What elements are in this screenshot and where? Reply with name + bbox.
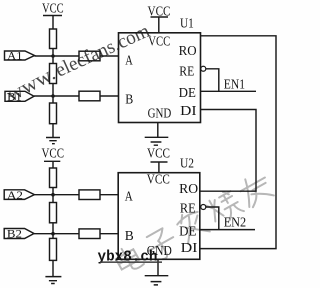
- pin RE bubble U1: [201, 66, 206, 71]
- ground (top-left chain): [46, 138, 60, 144]
- svg-text:RO: RO: [179, 43, 197, 58]
- resistor R3: [50, 103, 57, 124]
- wire R1 to R2: [52, 49, 54, 64]
- node B2 flag: [4, 227, 34, 241]
- wire B1 to resistor R8: [34, 95, 79, 97]
- power VCC (bottom-left chain): [42, 145, 65, 168]
- wire R4 to R5: [52, 188, 54, 203]
- resistor R1: [50, 29, 57, 49]
- svg-text:A2: A2: [7, 188, 23, 202]
- svg-text:EN1: EN1: [224, 77, 245, 92]
- wire R2 to R3: [52, 84, 54, 104]
- svg-text:RE: RE: [180, 201, 196, 216]
- resistor R4: [50, 168, 57, 188]
- ground (U1): [145, 123, 169, 146]
- wire B2 to resistor R10: [34, 233, 79, 235]
- svg-text:B1: B1: [7, 90, 21, 104]
- resistor R10: [79, 229, 100, 239]
- wire R7 to U1 pin A: [100, 55, 119, 57]
- node A2 junction: [51, 193, 55, 197]
- wire R10 to U2 pin B: [100, 233, 118, 235]
- resistor R6: [50, 238, 57, 260]
- power VCC (U1): [148, 3, 171, 32]
- wire R5 to R6: [52, 223, 54, 239]
- resistor R5: [50, 203, 57, 223]
- wire A2 to resistor R9: [34, 194, 79, 196]
- wire U2 DE net EN2: [200, 229, 255, 231]
- wire R8 to U1 pin B: [100, 95, 119, 97]
- resistor R7: [79, 51, 100, 61]
- IC U2 box: [118, 156, 200, 260]
- svg-text:A: A: [125, 188, 133, 203]
- ground (bottom-left chain): [45, 277, 61, 284]
- svg-text:U1: U1: [180, 16, 194, 31]
- wire U2 RE to EN2: [206, 207, 219, 230]
- watermark 电子发烧友 (drawn strokes): [113, 171, 275, 276]
- wire R6 to ground: [52, 260, 54, 276]
- svg-text:RO: RO: [179, 181, 198, 196]
- svg-text:DE: DE: [179, 223, 196, 238]
- svg-text:VCC: VCC: [148, 3, 171, 18]
- svg-text:VCC: VCC: [42, 145, 65, 160]
- resistor R8: [79, 91, 100, 101]
- wire U1 DE net EN1: [201, 90, 257, 92]
- wire R9 to U2 pin A: [100, 194, 118, 196]
- svg-text:RE: RE: [179, 63, 194, 78]
- wire R3 to ground: [52, 124, 54, 138]
- svg-text:A: A: [125, 52, 133, 67]
- watermark ybx8.ch: [98, 249, 163, 265]
- resistor R9: [79, 190, 100, 200]
- svg-text:EN2: EN2: [224, 215, 247, 230]
- node B1 junction: [51, 94, 55, 98]
- svg-text:DE: DE: [179, 85, 196, 100]
- node B2 junction: [51, 232, 55, 236]
- svg-text:B2: B2: [7, 227, 22, 241]
- wire U1 RO loop to U2 DI: [200, 36, 276, 249]
- IC U1 box: [119, 16, 201, 123]
- svg-text:VCC: VCC: [148, 33, 170, 48]
- svg-text:VCC: VCC: [147, 171, 170, 186]
- wire U1 DI loop to U2 RO: [200, 110, 256, 192]
- node A1 flag: [5, 48, 35, 62]
- svg-text:VCC: VCC: [42, 1, 64, 16]
- watermark www.elecfans.com: [3, 21, 153, 107]
- svg-text:B: B: [125, 92, 133, 107]
- wire A1 to resistor R7: [35, 55, 80, 57]
- svg-text:U2: U2: [180, 156, 194, 171]
- wire U1 RE to EN1: [206, 69, 219, 92]
- pin RE bubble U2: [201, 205, 206, 210]
- svg-text:GND: GND: [148, 105, 172, 120]
- node A2 flag: [4, 188, 34, 202]
- power VCC (U2): [147, 146, 170, 173]
- svg-text:VCC: VCC: [147, 146, 170, 161]
- svg-text:DI: DI: [180, 103, 197, 118]
- svg-text:DI: DI: [181, 240, 198, 255]
- svg-text:B: B: [125, 228, 134, 243]
- ground (U2): [145, 259, 169, 285]
- power VCC (top-left chain): [42, 1, 64, 30]
- svg-text:elecfans.com: elecfans.com: [52, 21, 153, 82]
- svg-text:A1: A1: [7, 48, 22, 62]
- resistor R2: [50, 64, 57, 84]
- node A1 junction: [51, 54, 55, 58]
- node B1 flag: [5, 90, 34, 104]
